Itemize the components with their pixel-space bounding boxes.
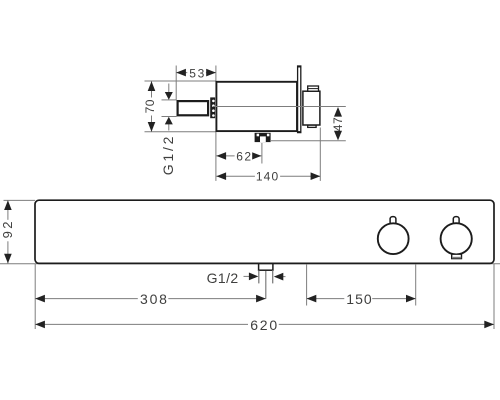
svg-text:70: 70 <box>143 99 157 113</box>
pipe upper edge extension <box>162 99 177 101</box>
svg-text:62: 62 <box>236 150 252 164</box>
dim 150 right extension line <box>415 264 417 306</box>
svg-text:G1/2: G1/2 <box>160 134 176 176</box>
dim 53 right extension line <box>215 66 217 82</box>
dim 70 top extension line <box>145 80 217 82</box>
svg-text:G1/2: G1/2 <box>207 270 239 286</box>
dim 53 left extension line <box>175 66 177 101</box>
outlet nut (side view, below body) <box>255 133 271 142</box>
svg-text:308: 308 <box>140 291 169 307</box>
svg-text:92: 92 <box>0 219 15 238</box>
dim 620 dimension line with arrows <box>35 321 494 329</box>
left extension line below body <box>34 264 36 329</box>
svg-text:47: 47 <box>331 117 345 131</box>
dim 140 label <box>255 170 280 184</box>
dim 92 dimension line with arrows <box>4 200 12 263</box>
pipe pointer arrow down <box>165 84 173 100</box>
left knob notch <box>390 217 396 225</box>
dim 53 label <box>187 66 206 81</box>
pipe thread G1/2 <box>210 97 215 118</box>
dim 140 dimension line with arrows <box>216 172 320 180</box>
dim 47 label <box>331 117 345 131</box>
mixer body (front view) <box>35 200 494 263</box>
dim 150 left extension line <box>306 264 308 306</box>
right extension line below body <box>493 264 495 329</box>
pipe pointer arrow up <box>165 117 173 131</box>
dim 308 dimension line with arrows <box>35 295 266 303</box>
dim 62 left extension line <box>215 132 217 181</box>
dim 70 label <box>143 98 157 116</box>
right knob bottom tab <box>452 254 462 258</box>
outlet centre extension line <box>265 271 267 299</box>
dim 53 dimension line with arrows <box>176 69 216 77</box>
svg-text:620: 620 <box>250 317 279 333</box>
right knob notch <box>453 217 459 225</box>
svg-text:150: 150 <box>346 291 372 307</box>
dim 70 bottom extension line <box>145 131 217 133</box>
svg-text:140: 140 <box>256 170 279 184</box>
dim 62 right extension line <box>261 143 263 164</box>
dim 150 label <box>344 291 372 307</box>
connector bottom tab <box>308 125 316 127</box>
supply pipe <box>178 101 209 115</box>
outlet fitting (front view) <box>259 264 273 284</box>
pipe lower edge extension <box>162 116 177 118</box>
dim 70 dimension line with arrows <box>148 81 156 131</box>
G1/2 label (front view) with pointer arrows <box>207 270 286 286</box>
dim 47 dimension line with arrows <box>334 107 342 140</box>
dim 140 right extension line <box>319 128 321 181</box>
dim 62 dimension line with arrows <box>216 152 261 160</box>
dim 308 label <box>138 291 169 307</box>
centre axis line <box>213 106 346 108</box>
dim 92 top extension line <box>4 199 36 201</box>
svg-text:53: 53 <box>189 67 206 81</box>
bottom reference line (full width) <box>0 263 500 265</box>
dim 150 dimension line with arrows <box>307 295 416 303</box>
G1/2 label (side view, rotated) <box>160 134 176 176</box>
connector top cap <box>308 86 319 91</box>
wall connector knob <box>303 91 320 125</box>
dim 47 bottom extension line <box>271 140 346 142</box>
dim 92 label <box>0 219 15 241</box>
dim 620 label <box>248 317 279 333</box>
left knob <box>378 223 409 254</box>
mixer body (side view) <box>216 82 297 131</box>
right knob <box>441 223 472 254</box>
wall plate <box>297 66 301 133</box>
dim 62 label <box>235 150 253 164</box>
